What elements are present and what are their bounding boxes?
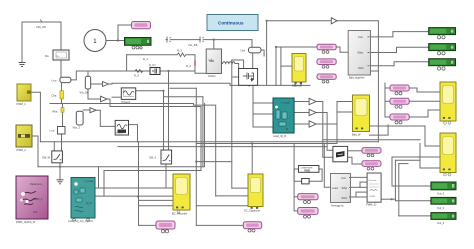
- wire vertical drop g3: [398, 164, 400, 216]
- wire BC low in1: [139, 199, 174, 201]
- wire pink H to battA: [409, 100, 440, 102]
- converter block with icon: [333, 146, 348, 161]
- wire batt out1: [371, 32, 429, 37]
- wire chopper stub row4: [356, 191, 367, 193]
- current sensor red tick: [186, 61, 195, 69]
- svg-text:Curr: Curr: [358, 35, 363, 39]
- wire Vth top drop: [87, 71, 89, 76]
- svg-text:PWM_Hybrid_W: PWM_Hybrid_W: [16, 220, 36, 224]
- wire mosfet top pin1: [232, 60, 244, 69]
- wire gainB out: [316, 113, 333, 151]
- power meter block Power2: [115, 120, 128, 135]
- wire mosfet top pin2 to Uw: [252, 53, 254, 69]
- wire load out3 to gain: [294, 123, 309, 125]
- wire R4 top: [127, 54, 177, 56]
- svg-text:Discrete: Discrete: [369, 179, 378, 182]
- battery BC_Recooler yellow: [172, 174, 190, 216]
- display green top 3: [429, 59, 456, 70]
- breaker switch SW_W: [42, 151, 62, 163]
- wire RMS input trunk: [294, 168, 298, 170]
- wire after arrow: [337, 21, 378, 142]
- wire bus y143.5: [196, 143, 337, 145]
- wire vertical x196.3: [195, 88, 197, 225]
- wire pinks mid trunk: [293, 144, 295, 211]
- battery block SOCin: [206, 49, 221, 78]
- discrete PWM block chopper: [366, 173, 381, 207]
- unit delay U/w: [241, 47, 262, 53]
- PWM source 1 yellow: [17, 84, 32, 106]
- wire chopper stub row2: [360, 181, 367, 183]
- wire pinkI down-left: [370, 125, 389, 135]
- wire gainC out: [316, 124, 337, 144]
- svg-text:Out_3: Out_3: [437, 221, 445, 225]
- svg-text:L+w: L+w: [50, 129, 55, 133]
- svg-text:Vth_3/8: Vth_3/8: [80, 91, 89, 95]
- svg-text:D_ICi: D_ICi: [149, 63, 156, 67]
- display green top 2: [429, 44, 456, 55]
- svg-text:Batt_together: Batt_together: [349, 76, 365, 80]
- wire pink I feed: [385, 116, 390, 118]
- display block Out_1: [125, 38, 152, 50]
- goto tag pink 1: [317, 44, 336, 53]
- wire RMS out: [319, 168, 322, 170]
- wire Uw right: [261, 50, 264, 56]
- svg-text:V_Load: V_Load: [84, 179, 94, 183]
- display green bottom 1: [431, 182, 456, 196]
- wire SC in row2: [216, 195, 248, 197]
- svg-text:Load_IQ_R: Load_IQ_R: [273, 134, 286, 138]
- wire gain1 out: [109, 83, 113, 85]
- wire bus y146.6: [118, 146, 327, 148]
- wire left vertical to ground: [21, 22, 23, 62]
- measurement gap 1 on Vss line: [167, 37, 171, 43]
- power meter block Power1: [121, 88, 135, 104]
- svg-text:R_5: R_5: [134, 74, 139, 78]
- wire load out1 to gain: [294, 101, 309, 103]
- wire pink G feed: [385, 87, 390, 89]
- wire avg out2: [351, 186, 361, 188]
- svg-text:Rba: Rba: [53, 110, 58, 114]
- wire main top bus: [267, 20, 332, 22]
- goto tag pink E: [362, 161, 381, 170]
- wire vertical x280.9: [280, 47, 282, 85]
- svg-text:Batt: Batt: [210, 59, 215, 63]
- wire bus y166.7: [38, 104, 205, 167]
- divide block Div: [45, 50, 69, 60]
- wire bus y83.2: [112, 83, 230, 85]
- wire pink K feed: [294, 210, 298, 212]
- goto tag pink C bottom: [243, 222, 261, 232]
- wire load out2 to gain: [294, 112, 309, 114]
- wire Vth out to gain1: [91, 83, 103, 85]
- wire PWM1 out: [31, 92, 40, 142]
- wire bus y103.5: [50, 103, 194, 105]
- wire chopper stub row3: [360, 186, 367, 188]
- wire vertical x276: [275, 47, 277, 85]
- svg-text:Battery: Battery: [292, 84, 301, 88]
- capacitor C_IC block: [149, 63, 160, 76]
- wire bus y139.5: [323, 139, 420, 141]
- wire branch to goto tag: [118, 25, 132, 41]
- svg-text:Batt_W: Batt_W: [352, 133, 361, 137]
- wire vertical x214.8: [215, 105, 217, 196]
- wire gain2 out: [107, 99, 110, 107]
- display green bottom 2: [431, 197, 456, 210]
- wire R4 left leg: [126, 55, 128, 71]
- wire converter out2: [348, 157, 362, 164]
- wire R5 row: [112, 70, 150, 72]
- wire to green O1: [392, 185, 431, 187]
- wire chopper out: [381, 198, 395, 200]
- wire SC in row3: [196, 205, 248, 207]
- wire bus y85.4: [230, 84, 310, 86]
- wire pink H feed: [385, 100, 390, 102]
- svg-text:SW_2: SW_2: [149, 156, 157, 160]
- wire Power1 left: [112, 96, 121, 98]
- svg-text:SOC: SOC: [342, 196, 348, 200]
- wire drop x104: [103, 171, 105, 197]
- svg-text:Wba: Wba: [342, 186, 348, 190]
- gain triangle A: [309, 98, 316, 104]
- wire battery pin down2: [300, 82, 302, 85]
- goto tag pink B bottom: [156, 221, 175, 233]
- wire y88.3 row: [170, 87, 196, 89]
- svg-text:L+w: L+w: [52, 79, 57, 83]
- wire gain2 in: [88, 89, 101, 99]
- svg-text:Reference_: Reference_: [30, 182, 44, 186]
- svg-text:Load: Load: [332, 186, 338, 190]
- wire left yellow batt feeds: [337, 101, 353, 103]
- svg-text:Cba: Cba: [52, 94, 57, 98]
- powergui block Continuous: [207, 15, 258, 31]
- wire left yellow batt feed2: [337, 111, 353, 113]
- wire SOCin right: [222, 63, 223, 65]
- wire vertical x168.5: [168, 71, 170, 151]
- goto tag pink D: [362, 148, 381, 157]
- wire chopper stub row5: [356, 196, 367, 198]
- battery right yellow A: [440, 82, 456, 124]
- svg-text:SW_W: SW_W: [42, 156, 51, 160]
- RMS block: [299, 166, 319, 173]
- wire tag1 to batt block: [336, 47, 348, 52]
- wire load in3: [253, 126, 273, 128]
- wire Vss measurement line: [166, 39, 252, 41]
- wire battery left feed: [281, 65, 292, 67]
- wire bus to battB: [392, 156, 440, 158]
- svg-text:U/w: U/w: [241, 49, 246, 53]
- subsystem Batt together: [348, 31, 370, 80]
- wire bus y106.5: [110, 106, 201, 108]
- svg-text:BC_Recooler: BC_Recooler: [172, 212, 188, 216]
- svg-text:Out_3: Out_3: [437, 206, 445, 210]
- wire switch1 to ground: [59, 163, 61, 180]
- wire branch to WH tag: [138, 142, 140, 226]
- wire pink I to battA: [409, 110, 440, 117]
- wire switch1 pin up1: [53, 142, 55, 151]
- wire battery pin down1: [294, 82, 296, 85]
- svg-text:Wba: Wba: [358, 51, 364, 55]
- wire teal hybrid out1: [95, 187, 173, 189]
- wire inductor to mosfet: [235, 64, 239, 69]
- svg-text:V_Load: V_Load: [281, 101, 291, 105]
- wire load in1: [253, 102, 273, 104]
- wire mosfet left pin: [233, 76, 239, 78]
- svg-text:SC_Capacitor: SC_Capacitor: [244, 209, 260, 213]
- measurement gap 2 on Vss line: [200, 37, 204, 43]
- wire y96.7 row: [164, 96, 203, 98]
- breaker switch SW_2: [149, 150, 172, 164]
- mosfet block: [239, 69, 258, 86]
- wire converter out1: [348, 150, 362, 152]
- battery right yellow B: [440, 133, 456, 176]
- goto tag pink 3: [317, 74, 336, 83]
- svg-text:R_4: R_4: [143, 57, 148, 61]
- svg-text:PWM_2: PWM_2: [17, 148, 27, 152]
- wire yellow left to right battery: [370, 126, 441, 146]
- battery left yellow Batt_W: [352, 95, 370, 137]
- svg-text:RMS: RMS: [305, 169, 311, 173]
- arrow buffer on top bus: [331, 18, 337, 24]
- wire gain3 out to Power2: [96, 110, 115, 126]
- wire Vdd top: [22, 21, 61, 23]
- gain triangle C: [309, 121, 316, 127]
- PWM source 2 yellow-olive: [16, 125, 32, 152]
- wire avg right stub1: [351, 176, 368, 178]
- svg-text:Out_3: Out_3: [437, 192, 445, 196]
- wire vertical x202.9: [202, 97, 204, 167]
- wire vertical x360: [359, 182, 361, 187]
- subsystem Average gray: [331, 174, 351, 208]
- svg-text:R: R: [286, 127, 288, 131]
- wire PWM2 out: [32, 136, 38, 167]
- svg-text:R_3: R_3: [186, 64, 191, 68]
- integrator Vbs vertical: [73, 111, 84, 129]
- inductor block L+w: [52, 77, 71, 82]
- wire Div to Lbat: [60, 60, 62, 77]
- wire pink J feed: [294, 196, 298, 198]
- wire vertical x356: [355, 192, 357, 197]
- subsystem Load hybrid teal: [68, 178, 95, 224]
- gain triangle 3: [90, 108, 96, 113]
- ground top-left: [19, 63, 26, 67]
- svg-text:Vdd_3/8: Vdd_3/8: [36, 25, 46, 29]
- wire to green O2: [395, 200, 431, 202]
- wire Power2 out: [129, 125, 138, 142]
- wire Rba block to switch: [61, 134, 63, 151]
- wire corner y161.6: [196, 161, 232, 163]
- resistor R_5 inline: [134, 70, 143, 78]
- wire vertical drop g2: [394, 160, 396, 200]
- wire teal load left feeds: [252, 85, 254, 127]
- wire mosfet bottom pin: [248, 84, 250, 86]
- svg-text:Continuous: Continuous: [218, 21, 244, 26]
- wire Power1 right to switch2: [136, 91, 164, 151]
- wire SC top feed: [251, 144, 253, 175]
- label Vdd_3/8: [36, 20, 46, 30]
- svg-text:Power2: Power2: [116, 131, 124, 134]
- inductor right of SOCin: [223, 62, 235, 64]
- subsystem Load_IQ teal: [273, 98, 294, 138]
- wire gray load pin: [324, 144, 330, 188]
- svg-text:PWM_IC: PWM_IC: [366, 203, 377, 207]
- goto tag pink 2: [317, 59, 336, 68]
- gain triangle 2: [101, 96, 107, 102]
- wire load in2: [253, 113, 273, 115]
- wire pink G to battA: [409, 88, 440, 92]
- wire gainA out: [316, 102, 333, 158]
- capacitor segment Cba yellow: [52, 91, 64, 99]
- source circle 1: [84, 30, 106, 52]
- wire y105.1 row: [194, 104, 215, 106]
- wire pink tag1 feed: [276, 46, 317, 48]
- wire bus y170.5: [104, 170, 201, 172]
- wire BC low in2: [139, 205, 174, 207]
- svg-text:Average-ip: Average-ip: [331, 204, 344, 208]
- wire vertical x266.6: [266, 21, 268, 86]
- svg-text:Out: Out: [33, 210, 37, 214]
- wire stub g3: [399, 163, 408, 165]
- wire batt out3: [371, 62, 429, 66]
- resistor segment Rba yellow: [53, 108, 65, 114]
- svg-text:Power1: Power1: [122, 100, 131, 104]
- wire WH2 tag feed: [196, 224, 243, 226]
- battery SC_Capacitor yellow: [244, 174, 263, 213]
- svg-text:Curr: Curr: [341, 176, 346, 180]
- wire small block out: [309, 169, 322, 181]
- small block Rb: [50, 127, 66, 135]
- svg-text:SOCin: SOCin: [208, 74, 216, 78]
- wire batt out2: [371, 47, 429, 52]
- goto tag pink I: [390, 114, 409, 124]
- display green top 1: [429, 28, 456, 39]
- wire SC in row1: [232, 187, 248, 189]
- wire bus to battB2: [395, 160, 440, 168]
- display green bottom 3: [431, 213, 456, 226]
- wire vertical x337b: [336, 102, 338, 125]
- svg-text:PWM_p: PWM_p: [33, 197, 43, 201]
- goto tag pink J: [298, 194, 318, 204]
- wire batt right stub: [371, 70, 379, 72]
- wire right vertical to Div: [60, 22, 62, 50]
- ground under switch: [57, 180, 64, 184]
- wire Cba to Rba: [62, 104, 64, 127]
- wire vertical x201: [200, 107, 202, 171]
- wire vertical x385: [384, 83, 386, 117]
- wire teal hybrid out2: [95, 195, 173, 197]
- wire avg out3: [351, 196, 357, 198]
- wire into Uw block: [251, 40, 253, 48]
- wire to green O3: [399, 215, 431, 217]
- wire bus y141.8: [40, 141, 378, 143]
- svg-text:PWM: PWM: [370, 196, 376, 198]
- resistor R_3 inline: [177, 49, 186, 57]
- svg-text:SOC: SOC: [358, 66, 364, 70]
- wire RMS trunk vertical: [294, 169, 302, 181]
- wire switch2 bottom: [165, 164, 167, 188]
- wire vertical x420: [419, 144, 421, 169]
- wire Lbat right loop: [71, 71, 112, 80]
- wire drop x98.5: [98, 167, 100, 188]
- svg-text:R_3: R_3: [177, 49, 182, 53]
- wire vertical drop g1: [391, 157, 393, 186]
- wire source output: [107, 40, 125, 42]
- wire SOCin top feed: [213, 40, 215, 49]
- svg-text:Vbs_3: Vbs_3: [73, 126, 81, 130]
- wire Vbs to gain3: [83, 109, 90, 111]
- wire vertical x231.8: [231, 60, 233, 188]
- svg-text:Vss_3/8: Vss_3/8: [188, 43, 198, 47]
- goto tag pink G: [390, 85, 409, 95]
- battery yellow main: [292, 54, 306, 88]
- goto tag pink top: [132, 22, 151, 29]
- svg-text:IQ_R: IQ_R: [86, 201, 92, 205]
- wire R3 to SOCin: [186, 55, 206, 73]
- wire Lbat down through Cba: [61, 83, 63, 104]
- wire CIC right: [160, 70, 195, 72]
- goto tag pink K: [298, 208, 318, 219]
- gain triangle 1: [103, 82, 109, 87]
- svg-text:PWM_1: PWM_1: [17, 102, 27, 106]
- integrator Vth vertical: [80, 76, 91, 94]
- small block under RMS: [302, 179, 310, 184]
- gain triangle B: [309, 109, 316, 115]
- subsystem PWM_Hybrid magenta: [16, 176, 48, 224]
- goto tag pink H: [390, 98, 409, 108]
